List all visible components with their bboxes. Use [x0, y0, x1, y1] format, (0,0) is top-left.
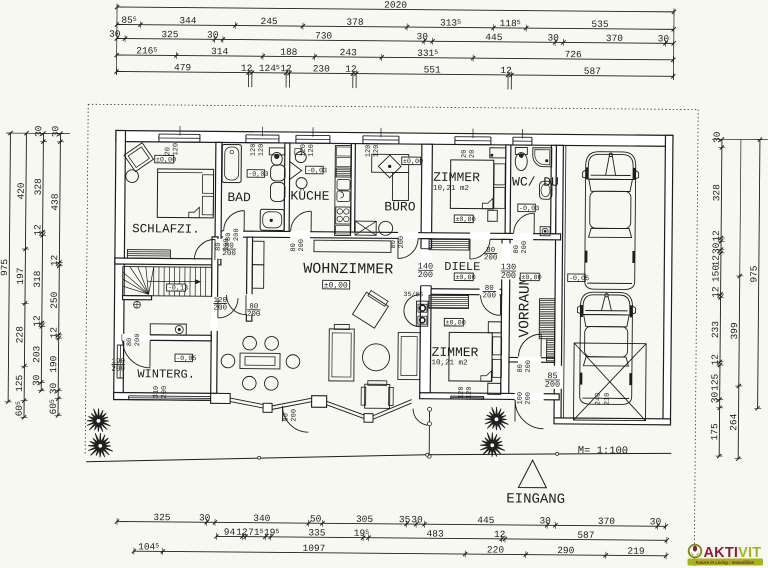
- svg-text:331: 331: [417, 48, 434, 59]
- svg-text:233: 233: [710, 321, 721, 338]
- schlafzimmer tilted chair: [124, 143, 153, 172]
- svg-text:80: 80: [513, 245, 521, 253]
- svg-text:104: 104: [138, 541, 155, 552]
- door gap garage-vestibule 85: [553, 366, 562, 389]
- door arc stairhall to wohnzimmer: [218, 298, 238, 318]
- bad shower: [260, 209, 284, 230]
- top dim row 5: [117, 72, 674, 77]
- door arc kueche: [291, 211, 312, 232]
- schlafzimmer round chair: [126, 170, 139, 183]
- bad sink 1: [271, 165, 286, 181]
- svg-text:200: 200: [521, 241, 529, 254]
- svg-text:80: 80: [225, 233, 233, 241]
- entrance walkway fence: [428, 409, 430, 456]
- svg-text:335: 335: [308, 527, 325, 538]
- buero level label: [402, 157, 421, 165]
- door arc winterg: [122, 340, 150, 368]
- svg-text:94: 94: [224, 527, 236, 538]
- door label corridor 120/200: [213, 297, 227, 313]
- svg-text:30: 30: [48, 382, 59, 394]
- svg-text:188: 188: [280, 47, 297, 58]
- svg-text:80: 80: [282, 413, 290, 421]
- svg-text:71: 71: [248, 527, 260, 538]
- door gap bad: [223, 230, 243, 238]
- svg-text:±0,00: ±0,00: [455, 274, 475, 282]
- wc level label: [518, 204, 536, 212]
- vorraum level label: [520, 273, 539, 281]
- svg-text:10,21 m2: 10,21 m2: [431, 359, 467, 367]
- bay node 1: [263, 403, 272, 412]
- kachelofen quarter circle: [404, 295, 420, 327]
- plant shrub 4: [480, 432, 505, 457]
- door arc vorraum south: [519, 334, 542, 357]
- door gap kueche: [290, 231, 310, 239]
- door gap zimmer2: [480, 288, 500, 295]
- plant shrub 2: [88, 433, 113, 458]
- buero chair circle: [379, 221, 393, 235]
- window kueche north: [296, 133, 330, 142]
- window bad north: [246, 133, 279, 142]
- wohnzimmer round table: [362, 344, 389, 371]
- svg-text:35/86: 35/86: [404, 291, 424, 298]
- svg-text:M= 1:100: M= 1:100: [578, 445, 629, 457]
- svg-text:10,21 m2: 10,21 m2: [433, 185, 469, 193]
- door label 85/200: [545, 371, 560, 390]
- kueche stove 4 burners: [336, 207, 351, 224]
- svg-text:30: 30: [711, 242, 722, 254]
- svg-text:5: 5: [275, 528, 279, 535]
- car 1: [582, 152, 639, 290]
- svg-text:BÜRO: BÜRO: [384, 199, 416, 214]
- staircase: [123, 267, 212, 297]
- svg-text:438: 438: [50, 193, 61, 210]
- svg-text:120: 120: [365, 145, 373, 158]
- svg-text:200: 200: [501, 271, 516, 281]
- svg-text:216: 216: [136, 45, 153, 56]
- diele level label: [454, 273, 473, 281]
- door gap wc: [513, 233, 533, 241]
- wall schlafzimmer east: [215, 142, 222, 265]
- svg-text:730: 730: [315, 30, 332, 41]
- svg-text:12: 12: [32, 224, 43, 236]
- bay post west: [211, 393, 231, 403]
- svg-text:30: 30: [416, 31, 428, 42]
- svg-text:30: 30: [207, 29, 219, 40]
- svg-text:535: 535: [591, 19, 608, 30]
- svg-text:200: 200: [290, 409, 298, 422]
- door arc wc: [514, 213, 535, 234]
- bay glazing 4: [373, 399, 412, 416]
- zimmer1 level label: [454, 215, 473, 223]
- diele label 140/200: [418, 262, 433, 281]
- witness ticks on top wall: [179, 126, 181, 135]
- svg-text:SCHLAFZI.: SCHLAFZI.: [132, 222, 200, 237]
- svg-text:370: 370: [598, 516, 615, 527]
- svg-text:30: 30: [658, 33, 670, 44]
- svg-text:228: 228: [14, 326, 25, 343]
- svg-text:ZIMMER: ZIMMER: [432, 345, 479, 360]
- zimmer1 bed: [450, 160, 493, 209]
- svg-text:328: 328: [33, 178, 44, 195]
- kueche sink double: [337, 179, 350, 190]
- winterg window label 190/200: [111, 358, 125, 374]
- svg-text:120: 120: [466, 386, 474, 399]
- wall wohnzimmer west upper: [246, 237, 252, 321]
- svg-text:118: 118: [500, 18, 517, 29]
- zimmer1 wardrobe top: [490, 148, 506, 158]
- svg-text:±0,00: ±0,00: [445, 319, 465, 327]
- svg-text:30: 30: [411, 514, 423, 525]
- kueche corner sink top: [295, 152, 306, 163]
- bay glazing 3: [327, 401, 365, 415]
- window zimmer2 south 120: [451, 394, 484, 398]
- svg-text:483: 483: [427, 528, 444, 539]
- svg-text:WINTERG.: WINTERG.: [137, 367, 195, 382]
- svg-text:325: 325: [161, 29, 178, 40]
- svg-text:264: 264: [728, 413, 739, 430]
- svg-text:200: 200: [161, 386, 169, 399]
- svg-text:DIELE: DIELE: [444, 260, 480, 274]
- wohnzimmer armchair south: [365, 384, 390, 408]
- svg-text:200: 200: [398, 236, 406, 249]
- svg-text:30: 30: [31, 374, 42, 386]
- garage level label: [568, 274, 586, 282]
- door arc front door outside: [515, 400, 544, 429]
- wc toilet: [515, 147, 527, 154]
- svg-text:19: 19: [354, 528, 366, 539]
- svg-text:445: 445: [485, 32, 502, 43]
- svg-text:210: 210: [604, 393, 612, 406]
- buero diamond table: [378, 155, 401, 178]
- property line: [86, 452, 427, 465]
- svg-text:318: 318: [32, 270, 43, 287]
- door gap diele-vorraum 130: [501, 243, 511, 279]
- schlafzimmer radiator: [127, 250, 170, 259]
- svg-text:5: 5: [457, 19, 461, 26]
- dining table: [240, 353, 280, 369]
- svg-text:200: 200: [483, 292, 497, 300]
- svg-text:±0,00: ±0,00: [521, 274, 541, 282]
- kueche boxes bottom: [336, 225, 351, 234]
- svg-text:20: 20: [461, 150, 469, 158]
- svg-text:200: 200: [111, 366, 125, 374]
- left dim col 2: [24, 133, 26, 417]
- column circle below stairs: [134, 301, 141, 308]
- svg-text:-0,03: -0,03: [519, 205, 539, 213]
- window wintergarten west 190: [115, 345, 123, 378]
- svg-text:2020: 2020: [384, 0, 407, 11]
- wohnzimmer sideboard top: [314, 240, 391, 252]
- kachelofen stove body: [416, 301, 428, 326]
- door arc buero to wohnzimmer: [398, 238, 418, 258]
- svg-text:30: 30: [109, 29, 121, 40]
- kueche level label: [306, 166, 324, 174]
- svg-text:975: 975: [748, 265, 759, 282]
- kueche hatched block: [336, 168, 351, 177]
- svg-text:120: 120: [373, 145, 381, 158]
- svg-text:200: 200: [484, 254, 498, 262]
- svg-text:250: 250: [49, 291, 60, 308]
- bottom dim row A: [117, 522, 666, 527]
- window schlafzimmer north 120: [159, 132, 200, 141]
- stair walk line with arrow: [148, 280, 201, 282]
- door gap buero: [398, 232, 418, 240]
- svg-text:-0,13: -0,13: [168, 284, 188, 292]
- svg-text:60: 60: [14, 405, 25, 417]
- svg-text:12: 12: [48, 327, 59, 339]
- svg-text:120: 120: [300, 144, 308, 157]
- svg-text:30: 30: [539, 515, 551, 526]
- wall garage west: [554, 145, 563, 418]
- wohnzimmer sofa 1: [329, 329, 354, 381]
- svg-text:305: 305: [356, 514, 373, 525]
- svg-text:200: 200: [418, 270, 433, 280]
- exterior wall wintergarten south: [114, 392, 217, 400]
- left dim top tick line: [6, 132, 70, 135]
- svg-text:30: 30: [50, 125, 61, 137]
- window buero north: [363, 134, 399, 143]
- svg-text:12: 12: [710, 286, 721, 298]
- wall zimmer2 west: [420, 239, 432, 393]
- wall vestibule north: [509, 357, 555, 362]
- svg-text:219: 219: [627, 546, 644, 557]
- svg-text:200: 200: [247, 311, 261, 319]
- svg-text:5: 5: [15, 401, 22, 405]
- svg-text:12: 12: [711, 230, 722, 242]
- svg-text:ZIMMER: ZIMMER: [433, 170, 480, 185]
- svg-text:30: 30: [709, 391, 720, 403]
- schlafzimmer bed: [157, 169, 213, 218]
- door arc zimmer1 to diele: [470, 239, 490, 259]
- wall bad-kueche: [284, 143, 290, 232]
- svg-text:80: 80: [290, 243, 298, 251]
- svg-text:190: 190: [48, 355, 59, 372]
- door gap vorraum south: [518, 357, 541, 363]
- svg-text:12: 12: [710, 354, 721, 366]
- svg-text:125: 125: [14, 374, 25, 391]
- wall under stairs: [123, 296, 152, 300]
- svg-text:445: 445: [477, 515, 494, 526]
- svg-text:551: 551: [424, 64, 441, 75]
- wall kueche-buero: [351, 144, 356, 233]
- top dim row total 2020: [117, 7, 674, 12]
- svg-text:5: 5: [155, 543, 159, 550]
- svg-text:100: 100: [517, 392, 525, 405]
- wohnzimmer level label: [323, 280, 350, 289]
- door arc zimmer2: [480, 295, 500, 315]
- svg-text:120: 120: [308, 144, 316, 157]
- wc floor drain: [540, 227, 550, 236]
- logo AKTIVIT icon: [689, 545, 702, 558]
- svg-text:975: 975: [0, 259, 10, 276]
- svg-text:12: 12: [49, 254, 60, 266]
- wall zimmer2 north: [421, 289, 502, 295]
- svg-text:-0,05: -0,05: [569, 275, 589, 283]
- svg-text:-0,03: -0,03: [248, 171, 268, 179]
- exterior wall front south (zimmer2+entrance): [420, 393, 560, 400]
- svg-text:200: 200: [545, 380, 560, 390]
- opening wohnzimmer south-west: [217, 393, 231, 401]
- wall schlafzimmer south: [115, 258, 221, 265]
- svg-text:344: 344: [179, 15, 196, 26]
- wall zimmer1-wc: [505, 145, 511, 234]
- svg-text:80: 80: [215, 242, 223, 250]
- diele label 130/200: [501, 262, 516, 281]
- svg-text:124: 124: [259, 63, 276, 74]
- svg-text:220: 220: [487, 544, 504, 555]
- svg-text:340: 340: [253, 513, 270, 524]
- kueche corner bench V: [290, 162, 302, 180]
- svg-text:120: 120: [172, 143, 180, 156]
- zimmer1 cabinet bottom: [488, 210, 498, 221]
- schlafzimmer level label: [155, 155, 174, 163]
- svg-text:12: 12: [500, 65, 512, 76]
- stair level label: [167, 284, 186, 291]
- door gap front door: [515, 393, 544, 401]
- svg-text:±0,00: ±0,00: [324, 281, 348, 290]
- svg-text:30: 30: [712, 131, 723, 143]
- svg-text:200: 200: [213, 304, 227, 312]
- bottom dim row C: [134, 551, 666, 556]
- svg-text:230: 230: [313, 63, 330, 74]
- svg-text:85: 85: [121, 15, 133, 26]
- wall wc-garage: [551, 145, 557, 234]
- bad sink 2: [270, 182, 285, 201]
- door gap corridor-wohnzimmer: [246, 294, 253, 314]
- zimmer2 radiator north: [429, 295, 469, 308]
- svg-text:200: 200: [298, 239, 306, 252]
- door arc terrace door: [282, 406, 308, 432]
- wc sink: [539, 181, 552, 199]
- kueche boxes top: [336, 147, 351, 156]
- bad bathtub: [222, 144, 241, 182]
- passage wohnzimmer-diele 140: [420, 249, 432, 286]
- bad toilet: [269, 148, 285, 155]
- svg-text:587: 587: [584, 66, 601, 77]
- left dim col 4: [58, 134, 60, 416]
- svg-text:BAD: BAD: [227, 190, 251, 205]
- door label schlafzimmer 80/200: [222, 243, 236, 259]
- svg-text:245: 245: [261, 16, 278, 27]
- svg-text:Future in Living - Immobilien: Future in Living - Immobilien: [696, 560, 755, 565]
- bay glazing 1: [230, 398, 265, 405]
- winterg counter: [150, 324, 186, 335]
- svg-text:35: 35: [399, 514, 411, 525]
- plant shrub 1: [87, 408, 111, 432]
- svg-text:5: 5: [434, 49, 438, 56]
- logo banner: [688, 559, 764, 566]
- svg-text:5: 5: [153, 47, 157, 54]
- svg-text:5: 5: [133, 16, 137, 23]
- bay node 2: [364, 414, 373, 423]
- svg-text:12: 12: [32, 315, 43, 327]
- svg-text:12: 12: [241, 63, 253, 74]
- svg-text:290: 290: [557, 545, 574, 556]
- entrance triangle: [518, 460, 546, 488]
- svg-text:EINGANG: EINGANG: [506, 491, 565, 508]
- svg-text:12: 12: [711, 255, 722, 267]
- garage crossed area: [573, 343, 646, 421]
- door label zimmer2 80/200: [483, 285, 497, 301]
- svg-text:5: 5: [365, 529, 369, 536]
- svg-text:50: 50: [310, 513, 322, 524]
- diele radiator north: [429, 239, 469, 250]
- svg-text:20: 20: [469, 150, 477, 158]
- left dim col 3: [41, 133, 43, 390]
- svg-text:200: 200: [525, 392, 533, 405]
- wall south of top rooms: [221, 231, 561, 240]
- zimmer2 wardrobe top right: [488, 322, 501, 333]
- wohnzimmer sofa 2: [398, 332, 420, 379]
- kueche counter strip: [335, 145, 352, 235]
- vorraum hatched shaft: [539, 299, 555, 339]
- bay glazing 2: [272, 398, 312, 406]
- garage inner wall line: [564, 145, 566, 417]
- svg-text:KÜCHE: KÜCHE: [290, 189, 329, 204]
- wall stairhall-winterg: [122, 335, 211, 341]
- dining chairs: [243, 336, 257, 350]
- svg-text:30: 30: [199, 512, 211, 523]
- svg-text:203: 203: [31, 345, 42, 362]
- exterior wall garage bottom: [554, 418, 671, 425]
- wohnzimmer tilted armchair: [352, 289, 390, 328]
- svg-text:314: 314: [211, 46, 228, 57]
- svg-text:WOHNZIMMER: WOHNZIMMER: [303, 261, 393, 279]
- window wintergarten south 310: [129, 394, 211, 400]
- door label zimmer1 80/200: [484, 247, 498, 263]
- svg-text:200: 200: [525, 360, 533, 373]
- svg-text:30: 30: [547, 32, 559, 43]
- winterg level label: [175, 354, 193, 362]
- door arc bay small: [413, 409, 430, 426]
- bad level label: [247, 170, 265, 178]
- wall corridor west (stair hall east): [211, 237, 218, 394]
- dashed parcel boundary left: [85, 104, 88, 455]
- zimmer2 wardrobe bottom right: [488, 383, 501, 394]
- dashed parcel boundary right: [694, 110, 698, 568]
- svg-text:12: 12: [494, 529, 506, 540]
- svg-text:5: 5: [517, 19, 521, 26]
- exterior wall top: [116, 130, 673, 146]
- svg-text:197: 197: [15, 268, 26, 285]
- svg-text:200: 200: [134, 334, 142, 347]
- svg-text:80: 80: [517, 364, 525, 372]
- zimmer2 level label: [444, 318, 463, 326]
- svg-text:60: 60: [48, 403, 59, 415]
- window zimmer1 north 120: [455, 135, 491, 144]
- wall buero-zimmer1: [421, 144, 432, 239]
- svg-text:240: 240: [595, 393, 603, 406]
- svg-text:5: 5: [49, 399, 56, 403]
- svg-text:20: 20: [164, 147, 172, 155]
- buero desk L: [372, 154, 409, 172]
- svg-text:310: 310: [153, 386, 161, 399]
- svg-text:370: 370: [606, 33, 623, 44]
- svg-text:200: 200: [233, 228, 241, 241]
- top dim row 3: [117, 39, 674, 44]
- svg-text:125: 125: [710, 373, 721, 390]
- window wc north: [513, 135, 532, 144]
- svg-text:±0,00: ±0,00: [455, 216, 475, 224]
- plant shrub 3: [485, 407, 509, 431]
- wohnzimmer cupboard west: [252, 241, 264, 265]
- right dim col 399 264: [738, 276, 740, 459]
- svg-text:80: 80: [126, 338, 134, 346]
- svg-text:420: 420: [16, 182, 27, 199]
- svg-text:±0,00: ±0,00: [403, 158, 423, 166]
- door arc bad: [224, 210, 245, 231]
- svg-text:-0,05: -0,05: [176, 355, 196, 363]
